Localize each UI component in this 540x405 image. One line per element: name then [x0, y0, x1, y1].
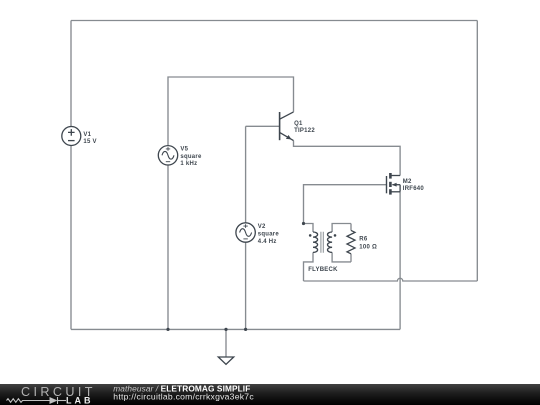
- svg-text:V5: V5: [180, 147, 188, 153]
- wire Q1 base: [246, 125, 280, 127]
- svg-text:R6: R6: [359, 237, 368, 243]
- wire bottom-right rail with hop over M2 source wire: [304, 278, 478, 281]
- MOSFET M2: [387, 173, 401, 195]
- svg-text:TIP122: TIP122: [294, 128, 315, 134]
- svg-text:http://circuitlab.com/crrkxgva: http://circuitlab.com/crrkxgva3ek7c: [113, 392, 254, 402]
- transformer FLYBECK core: [321, 232, 323, 253]
- wire secondary bottom: [332, 252, 351, 262]
- voltage source V1: [62, 127, 81, 146]
- voltage source V2: [236, 223, 255, 242]
- node junction dot V2/ground rail: [244, 328, 247, 331]
- svg-text:LAB: LAB: [66, 396, 94, 405]
- wire V2 top: [245, 126, 247, 223]
- svg-text:15 V: 15 V: [83, 139, 96, 145]
- transformer FLYBECK primary coil: [313, 232, 318, 252]
- ground: [218, 357, 233, 364]
- svg-text:square: square: [180, 154, 202, 160]
- wire ground rail: [71, 328, 400, 330]
- wire Q1 emitter to M2 drain: [294, 141, 401, 176]
- logo resistor-diode squiggle: [7, 397, 67, 404]
- svg-text:square: square: [258, 232, 280, 238]
- footer bar: [0, 384, 540, 405]
- transformer primary polarity dot: [309, 234, 312, 237]
- wire primary top leg: [304, 224, 314, 233]
- wire top rail: [71, 20, 477, 22]
- wire secondary top: [332, 224, 351, 233]
- svg-text:V2: V2: [258, 224, 266, 230]
- wire V5 bottom: [167, 165, 169, 330]
- voltage source V5: [158, 146, 177, 165]
- transformer FLYBECK secondary coil: [328, 232, 333, 252]
- svg-text:V1: V1: [83, 132, 91, 138]
- wire R6 top leg: [350, 224, 352, 231]
- wire R6 bottom leg: [350, 254, 352, 262]
- svg-text:4.4 Hz: 4.4 Hz: [258, 239, 277, 245]
- wire M2 gate: [304, 185, 387, 224]
- wire right side vertical: [476, 21, 478, 282]
- transformer secondary polarity dot: [334, 234, 337, 237]
- wire ground stem: [225, 329, 227, 357]
- node junction dot gate/primary: [302, 222, 305, 225]
- wire M2 source to ground rail: [399, 192, 401, 329]
- svg-text:Q1: Q1: [294, 121, 303, 127]
- node junction dot V5/ground rail: [166, 328, 169, 331]
- wire V1 bottom: [70, 146, 72, 330]
- wire V2 bottom: [245, 242, 247, 329]
- node junction dot ground symbol: [224, 328, 227, 331]
- svg-text:FLYBECK: FLYBECK: [308, 267, 338, 273]
- svg-text:IRF640: IRF640: [403, 186, 425, 192]
- wire primary bottom leg: [304, 252, 314, 281]
- svg-text:1 kHz: 1 kHz: [180, 161, 197, 167]
- resistor R6: [347, 230, 355, 253]
- transistor Q1: [280, 112, 294, 141]
- svg-text:M2: M2: [403, 179, 412, 185]
- wire V5 top to Q1 collector: [168, 77, 294, 146]
- wire V1 top vertical: [70, 21, 72, 127]
- svg-text:100 Ω: 100 Ω: [359, 245, 377, 251]
